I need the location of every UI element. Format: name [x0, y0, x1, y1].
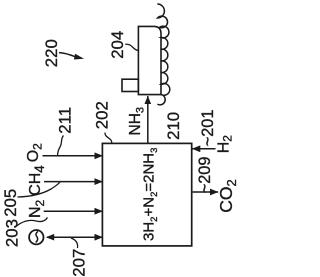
wire CH4 arrow	[44, 181, 103, 183]
burner 204 coil scallops	[157, 4, 169, 105]
svg-text:204: 204	[108, 31, 127, 59]
svg-text:210: 210	[164, 112, 183, 140]
leader 211	[58, 136, 64, 156]
burner 204 tab	[122, 79, 138, 91]
wire NH3 arrow	[147, 96, 149, 143]
reactor box 202	[102, 143, 191, 246]
leader 202	[105, 133, 112, 143]
svg-text:207: 207	[69, 249, 88, 277]
svg-text:211: 211	[55, 107, 74, 134]
leader 203	[17, 218, 48, 227]
AC arrowhead left	[46, 234, 54, 241]
svg-text:~201: ~201	[199, 110, 217, 147]
AC source circle	[29, 230, 43, 244]
leader 207	[71, 238, 78, 248]
svg-text:203: 203	[2, 219, 21, 247]
burner 204 body	[138, 26, 161, 94]
svg-text:202: 202	[92, 101, 111, 129]
svg-text:205: 205	[1, 189, 20, 217]
svg-text:~209: ~209	[196, 157, 214, 194]
arrow 220	[59, 53, 75, 57]
wire N2 arrow	[44, 210, 103, 212]
wire H2 arrow	[192, 148, 215, 150]
leader 205	[18, 182, 61, 197]
svg-text:220: 220	[42, 39, 61, 67]
leader 204	[125, 44, 138, 50]
wire CO2 arrow	[193, 191, 219, 193]
wire O2 arrow	[43, 155, 103, 157]
wire AC double arrow	[47, 236, 103, 238]
AC tilde	[36, 231, 38, 242]
